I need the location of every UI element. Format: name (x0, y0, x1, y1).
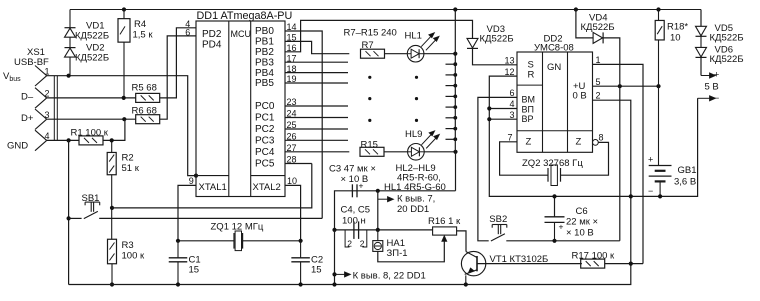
+5V distribution row with capacitor C3 (335, 191, 456, 230)
svg-text:−: − (648, 186, 653, 196)
DD1 pin 15 wire to resistor R7 (285, 41, 349, 53)
svg-text:2: 2 (596, 91, 601, 101)
svg-text:КД522Б: КД522Б (710, 54, 744, 65)
svg-text:15: 15 (311, 265, 322, 276)
svg-text:5: 5 (596, 77, 601, 87)
svg-text:КД522Б: КД522Б (75, 53, 109, 64)
resistor R1 100k (79, 136, 103, 145)
svg-text:5 В: 5 В (705, 82, 719, 93)
svg-text:1: 1 (45, 67, 50, 77)
svg-text:GB1: GB1 (678, 165, 697, 176)
svg-text:XTAL1: XTAL1 (199, 182, 227, 193)
svg-text:4: 4 (45, 131, 50, 141)
svg-text:2: 2 (360, 239, 365, 249)
svg-text:3,6 В: 3,6 В (674, 177, 696, 188)
arrow to DD1 pins 7 and 20 (377, 191, 379, 230)
svg-text:ВМ: ВМ (522, 95, 536, 105)
wire DD2 pin 1 down to base row (593, 64, 644, 263)
svg-text:D–: D– (21, 92, 34, 103)
svg-text:GND: GND (7, 141, 28, 152)
svg-text:ВР: ВР (522, 114, 534, 124)
svg-text:PB4: PB4 (255, 68, 274, 79)
svg-text:КД522Б: КД522Б (480, 34, 514, 45)
svg-text:PB5: PB5 (255, 78, 274, 89)
ellipsis dots for repeated cells (368, 76, 371, 79)
svg-text:GN: GN (547, 62, 561, 73)
svg-text:8: 8 (599, 133, 604, 143)
svg-text:1,5 к: 1,5 к (133, 30, 154, 41)
capacitor C4/C5 plates (353, 221, 355, 239)
top +3.6V power rail (70, 9, 701, 11)
svg-text:К выв. 7,: К выв. 7, (397, 194, 435, 205)
svg-text:13: 13 (505, 56, 515, 66)
abbreviated LED stubs to anode bus (446, 63, 456, 65)
svg-text:10: 10 (287, 176, 297, 186)
resistor R5 68 (136, 93, 160, 102)
svg-text:С6: С6 (576, 206, 588, 217)
wire SB1 row to DD1 pin 14 (285, 31, 322, 218)
5V output minus terminal (698, 97, 712, 99)
svg-text:PC3: PC3 (255, 136, 275, 147)
svg-text:КД522Б: КД522Б (581, 22, 615, 33)
svg-text:ЗП-1: ЗП-1 (387, 248, 408, 259)
svg-text:R4: R4 (134, 19, 146, 30)
svg-text:PB1: PB1 (255, 37, 274, 48)
svg-text:3: 3 (510, 110, 515, 120)
svg-text:С3 47 мк ×: С3 47 мк × (329, 164, 376, 175)
svg-text:10: 10 (670, 33, 681, 44)
svg-text:КД522Б: КД522Б (75, 31, 109, 42)
bottom ground rail (69, 264, 631, 285)
svg-text:× 10 В: × 10 В (341, 174, 369, 185)
wire GND row with resistor R1 100k up to D+ line (47, 139, 80, 141)
svg-text:PC1: PC1 (255, 113, 275, 124)
svg-text:DD1 ATmega8A-PU: DD1 ATmega8A-PU (197, 10, 293, 22)
svg-text:2: 2 (45, 89, 50, 99)
svg-text:ZQ2 32768 Гц: ZQ2 32768 Гц (522, 158, 583, 169)
diode VD2 KD522B (65, 47, 76, 49)
svg-text:D+: D+ (21, 113, 34, 124)
svg-text:PD2: PD2 (202, 29, 222, 40)
svg-text:+: + (359, 181, 364, 191)
svg-text:XTAL2: XTAL2 (253, 182, 281, 193)
resistor R2 51k (111, 140, 113, 152)
svg-text:−: − (714, 93, 719, 103)
svg-text:1: 1 (596, 55, 601, 65)
capacitor C2 15 (300, 241, 302, 258)
svg-text:R: R (528, 69, 535, 80)
LED anode bus from rail down to +5V row (454, 10, 456, 152)
wire VD4 cathode down through +U dot to SB2 row (603, 38, 620, 241)
wire Vbus row to DD1 left edge (47, 76, 196, 176)
svg-text:PB2: PB2 (255, 47, 274, 58)
svg-text:9: 9 (189, 176, 194, 186)
resistor R6 68 (136, 115, 160, 124)
svg-text:R17 100 к: R17 100 к (572, 251, 616, 262)
capacitor C6 22uF (554, 196, 556, 216)
svg-text:15: 15 (189, 265, 200, 276)
wire D+ row with resistor R6 68 to DD1 pin 6 (47, 118, 136, 120)
svg-text:ВП: ВП (522, 105, 534, 115)
svg-text:HL1: HL1 (405, 31, 422, 42)
svg-text:PB0: PB0 (255, 26, 274, 37)
svg-text:R16 1 к: R16 1 к (428, 216, 461, 227)
svg-text:PC2: PC2 (255, 124, 275, 135)
wire down to bottom rail (334, 230, 336, 285)
ground left vertical wire from GND pin to bottom rail (68, 140, 70, 284)
svg-text:R15: R15 (361, 139, 378, 150)
cable shield double lines (53, 76, 55, 141)
svg-text:+: + (559, 222, 564, 232)
diodes VD5 VD6 KD522B to 5V output (700, 10, 702, 27)
transistor VT1 KT3102B (461, 251, 485, 275)
svg-text:22 мк ×: 22 мк × (566, 217, 598, 228)
svg-text:R2: R2 (122, 153, 134, 164)
svg-text:R5 68: R5 68 (132, 83, 157, 94)
arrow to DD1 pins 8 and 22 (335, 273, 347, 275)
svg-text:SB2: SB2 (489, 214, 507, 225)
svg-text:6: 6 (185, 28, 190, 38)
svg-text:6: 6 (510, 88, 515, 98)
svg-text:HL9: HL9 (405, 129, 422, 140)
sounder HA1 ZP-1 (377, 230, 379, 241)
svg-text:MCU: MCU (231, 29, 252, 39)
5V output plus terminal (700, 57, 702, 75)
wire D- row with resistor R5 68 to DD1 pin 4 (47, 97, 136, 99)
svg-text:4: 4 (510, 99, 515, 109)
svg-text:Z: Z (526, 137, 532, 148)
svg-text:0 В: 0 В (573, 90, 587, 101)
svg-text:КД522Б: КД522Б (710, 33, 744, 44)
DD1 pin 28 row (285, 163, 312, 165)
svg-text:R7–R15 240: R7–R15 240 (344, 28, 397, 39)
DD1 pin 16 wire up and right to VD3 (285, 20, 473, 51)
svg-text:PB3: PB3 (255, 57, 274, 68)
wire HA1 to R16 wiper (378, 240, 445, 262)
wire from R2/R3 junction under DD1 to pin 28 riser (112, 164, 312, 208)
resistor R18* 10 (658, 10, 660, 21)
svg-text:× 10 В: × 10 В (566, 228, 594, 239)
diode VD1 KD522B with VD2 in series from Vbus to rail (69, 10, 71, 28)
resistor R3 100k (108, 239, 117, 264)
resistor R4 1.5k from rail to D- line (123, 10, 125, 19)
svg-text:51 к: 51 к (122, 163, 140, 174)
svg-text:7: 7 (508, 133, 513, 143)
svg-text:R18*: R18* (667, 22, 688, 33)
capacitor C1 15 (177, 241, 179, 258)
svg-text:3: 3 (45, 110, 50, 120)
svg-text:PD4: PD4 (202, 40, 222, 51)
svg-text:PC0: PC0 (255, 101, 275, 112)
diode VD6 KD522B (696, 47, 707, 57)
DD1 pin 27 wire to resistor R15 (285, 151, 349, 153)
abbreviated matrix rows from ports (pins 17-19, 23-26) (285, 61, 348, 63)
svg-text:2: 2 (347, 239, 352, 249)
svg-text:PC5: PC5 (255, 159, 275, 170)
svg-text:20 DD1: 20 DD1 (397, 204, 429, 215)
battery GB1 3.6V (658, 86, 660, 165)
svg-text:+: + (714, 70, 719, 80)
svg-text:С4, С5: С4, С5 (341, 205, 371, 216)
svg-text:100 к: 100 к (122, 251, 145, 262)
capacitor C3 47uF (351, 184, 353, 197)
wire C4 row to R16 and on to VT1 collector (432, 229, 434, 231)
svg-text:К выв. 8, 22 DD1: К выв. 8, 22 DD1 (353, 271, 426, 282)
VT1 base row to R17 (477, 263, 582, 265)
svg-text:PC4: PC4 (255, 147, 275, 158)
svg-text:+: + (648, 155, 653, 165)
svg-text:Z: Z (576, 137, 582, 148)
svg-text:R3: R3 (122, 240, 134, 251)
